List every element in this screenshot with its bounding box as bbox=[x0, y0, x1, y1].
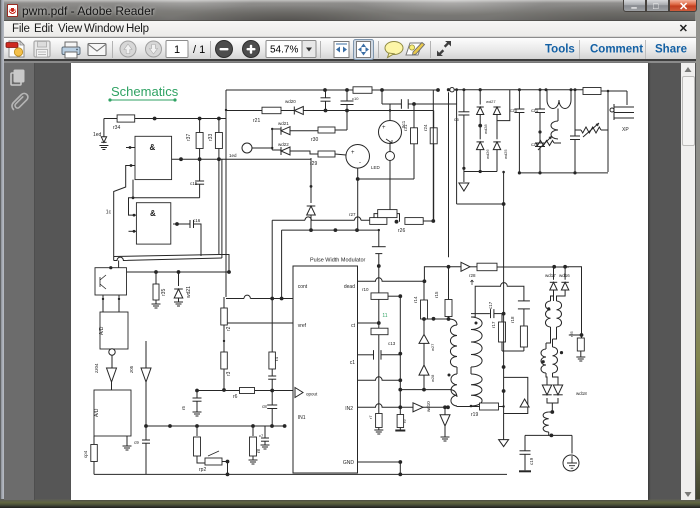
svg-text:+: + bbox=[382, 125, 386, 131]
svg-text:r6: r6 bbox=[233, 394, 238, 400]
svg-text:r25: r25 bbox=[569, 330, 574, 337]
svg-text:wd25: wd25 bbox=[503, 149, 508, 159]
svg-text:1ed: 1ed bbox=[229, 153, 237, 158]
svg-text:IN1: IN1 bbox=[298, 415, 306, 421]
svg-text:c21: c21 bbox=[531, 108, 539, 113]
svg-text:A/D: A/D bbox=[99, 326, 105, 335]
svg-text:wd21: wd21 bbox=[278, 121, 289, 126]
svg-text:wd21: wd21 bbox=[186, 286, 192, 298]
svg-text:Tools: Tools bbox=[545, 44, 575, 56]
svg-text:wd26: wd26 bbox=[485, 149, 490, 159]
svg-text:r28: r28 bbox=[469, 273, 476, 278]
svg-text:r17: r17 bbox=[491, 321, 496, 328]
svg-text:-: - bbox=[359, 160, 361, 166]
svg-text:r30: r30 bbox=[311, 137, 318, 143]
svg-text:r34: r34 bbox=[113, 125, 120, 131]
svg-text:r7: r7 bbox=[368, 415, 373, 419]
svg-text:r5: r5 bbox=[181, 406, 186, 410]
svg-text:r8: r8 bbox=[256, 449, 261, 453]
svg-text:c1: c1 bbox=[350, 360, 356, 366]
svg-text:r3: r3 bbox=[226, 371, 232, 376]
svg-text:c20: c20 bbox=[510, 108, 518, 113]
svg-text:w28: w28 bbox=[430, 374, 435, 382]
svg-text:54.7%: 54.7% bbox=[270, 45, 298, 56]
svg-text:LED: LED bbox=[371, 165, 381, 170]
svg-text:r37: r37 bbox=[186, 134, 192, 141]
svg-text:c15: c15 bbox=[190, 181, 198, 186]
svg-text:r24: r24 bbox=[423, 124, 428, 131]
svg-text:w27: w27 bbox=[430, 343, 435, 351]
svg-text:ct: ct bbox=[351, 323, 356, 329]
svg-text:r15: r15 bbox=[434, 291, 439, 298]
svg-text:&: & bbox=[150, 209, 156, 218]
svg-text:dead: dead bbox=[344, 284, 355, 290]
svg-text:/ 1: / 1 bbox=[193, 44, 205, 56]
svg-text:wd10: wd10 bbox=[426, 401, 431, 412]
svg-text:GND: GND bbox=[343, 460, 355, 466]
svg-text:r4: r4 bbox=[274, 357, 279, 361]
svg-text:r26: r26 bbox=[398, 228, 405, 234]
svg-text:vref: vref bbox=[298, 323, 307, 329]
svg-text:c13: c13 bbox=[388, 341, 396, 346]
svg-text:opout: opout bbox=[306, 392, 318, 397]
svg-text:c9: c9 bbox=[134, 440, 139, 445]
svg-text:r19: r19 bbox=[471, 412, 478, 418]
svg-text:rp2: rp2 bbox=[199, 467, 206, 473]
svg-text:c10: c10 bbox=[352, 96, 359, 101]
svg-text:1ed: 1ed bbox=[93, 132, 102, 138]
svg-text:wd18: wd18 bbox=[576, 391, 587, 396]
svg-text:r35: r35 bbox=[161, 289, 167, 296]
svg-text:Share: Share bbox=[655, 44, 687, 56]
svg-text:XP: XP bbox=[622, 127, 629, 133]
svg-text:r33: r33 bbox=[208, 134, 214, 141]
svg-text:IN2: IN2 bbox=[345, 406, 353, 412]
svg-text:1c: 1c bbox=[106, 210, 112, 216]
svg-text:Comment: Comment bbox=[590, 44, 643, 56]
svg-text:&: & bbox=[150, 143, 156, 152]
svg-text:wd17: wd17 bbox=[545, 273, 556, 278]
svg-text:9c1: 9c1 bbox=[401, 120, 406, 128]
svg-text:1: 1 bbox=[174, 44, 180, 56]
svg-text:Pulse Width Modulator: Pulse Width Modulator bbox=[310, 258, 365, 264]
svg-text:zz04: zz04 bbox=[94, 363, 99, 373]
svg-text:wd22: wd22 bbox=[278, 142, 289, 147]
svg-text:c5: c5 bbox=[454, 117, 459, 122]
svg-text:cont: cont bbox=[298, 284, 308, 290]
svg-text:A/D: A/D bbox=[94, 408, 100, 417]
svg-text:c16: c16 bbox=[193, 218, 201, 223]
svg-text:cp4: cp4 bbox=[83, 450, 88, 458]
svg-text:r27: r27 bbox=[349, 212, 356, 217]
svg-text:c17: c17 bbox=[488, 301, 493, 309]
svg-text:Schematics: Schematics bbox=[111, 84, 179, 99]
svg-text:r14: r14 bbox=[413, 296, 418, 303]
svg-text:c7: c7 bbox=[259, 433, 264, 438]
svg-text:+: + bbox=[351, 150, 355, 156]
svg-text:wd27: wd27 bbox=[486, 99, 496, 104]
svg-text:wd28: wd28 bbox=[483, 124, 488, 134]
svg-text:wd20: wd20 bbox=[285, 99, 296, 104]
svg-text:r2: r2 bbox=[226, 326, 232, 331]
svg-text:c8: c8 bbox=[262, 404, 267, 409]
svg-text:r10: r10 bbox=[362, 287, 369, 292]
svg-text:z05: z05 bbox=[129, 365, 134, 373]
svg-text:11: 11 bbox=[382, 313, 387, 319]
svg-text:r18: r18 bbox=[510, 316, 515, 323]
svg-text:r21: r21 bbox=[253, 118, 260, 124]
svg-text:c19: c19 bbox=[529, 457, 534, 465]
